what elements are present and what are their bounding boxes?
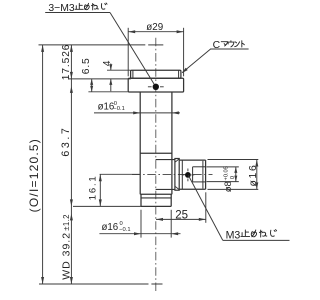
dim 6.5 <box>88 91 127 93</box>
image plane reference line <box>39 44 146 46</box>
svg-text:0: 0 <box>230 176 236 179</box>
svg-text:+0.05: +0.05 <box>224 166 230 180</box>
text WD 39.2 +-1.2 <box>61 214 73 280</box>
svg-text:M3: M3 <box>226 229 241 241</box>
svg-text:63.7: 63.7 <box>60 126 72 157</box>
port bore lines inside block <box>156 159 175 161</box>
port set screw <box>185 172 191 178</box>
dim dia16 upper w/ tol <box>94 112 180 114</box>
block step edge <box>140 193 172 195</box>
svg-text:−0.1: −0.1 <box>113 106 124 112</box>
svg-text:ø16: ø16 <box>102 222 119 233</box>
main tube right wall <box>171 92 173 194</box>
dim dia16 right port <box>208 159 259 161</box>
svg-text:ø16: ø16 <box>248 163 259 186</box>
dim dia16 lower w/ tol <box>140 210 142 238</box>
dim 16.1 <box>100 173 140 175</box>
C-mount thread ring <box>131 70 181 78</box>
port collar ring <box>181 160 183 189</box>
plate chamfer ticks <box>175 159 179 162</box>
side port horizontal centerline <box>132 174 213 176</box>
port flange plate <box>175 159 179 191</box>
svg-text:ø16: ø16 <box>98 102 115 113</box>
svg-text:6.5: 6.5 <box>81 57 92 74</box>
svg-text:(O/I=120.5): (O/I=120.5) <box>27 138 41 212</box>
svg-text:16.1: 16.1 <box>88 174 99 200</box>
object plane reference line <box>39 283 149 285</box>
dim dia29 <box>127 28 129 77</box>
dim 4 <box>107 69 130 71</box>
svg-text:25: 25 <box>175 209 188 221</box>
top flange block dia29 <box>128 78 183 92</box>
dim 25 <box>205 192 207 223</box>
bottom face edge <box>141 205 171 207</box>
svg-text:−0.1: −0.1 <box>119 227 130 233</box>
svg-text:ø29: ø29 <box>146 22 163 33</box>
svg-text:17.526: 17.526 <box>61 44 72 81</box>
port dia8 bore <box>193 166 206 168</box>
stacked dim line 17.526/63.7/WD <box>70 45 72 284</box>
block top edge <box>140 152 172 154</box>
dim O/I=120.5 <box>42 45 44 284</box>
dim dia8 +0.05/0 <box>207 166 239 168</box>
port barrel <box>179 159 205 161</box>
svg-text:WD 39.2: WD 39.2 <box>61 232 73 280</box>
top set screw <box>153 84 159 90</box>
main tube left wall <box>139 92 141 194</box>
bottom bezel <box>141 197 171 199</box>
bottom face ext line <box>73 205 141 207</box>
svg-text:4: 4 <box>102 60 113 66</box>
svg-text:ø8: ø8 <box>223 181 234 192</box>
flange plane ext line <box>68 78 131 80</box>
main vertical centerline <box>155 38 157 292</box>
svg-text:±1.2: ±1.2 <box>62 214 71 231</box>
